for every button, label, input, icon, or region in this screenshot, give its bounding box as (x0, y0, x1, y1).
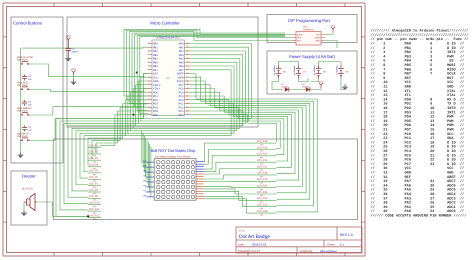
svg-text:14: 14 (148, 91, 150, 94)
svg-text:// 30 VCC: // 30 VCC VCC // (371, 166, 465, 171)
svg-text:PD1: PD1 (153, 95, 158, 98)
wire display left pin 3 to bus (144, 135, 146, 172)
svg-text:21: 21 (186, 113, 188, 116)
wire bus row 12 drop to node 100_P1 (99, 144, 101, 147)
svg-text:VCC: VCC (330, 24, 335, 27)
svg-text:// 4 PB3 3: // 4 PB3 3 PWM // (371, 54, 465, 59)
display left pin 8 (143, 194, 154, 197)
svg-text:// 18 PD4 12: // 18 PD4 12 PWM // (371, 115, 465, 120)
svg-text:AA Battery: AA Battery (336, 64, 339, 75)
display left pin 5 (143, 180, 154, 183)
diode D1 1N4001 (281, 83, 289, 92)
switch SW4 OM_Push (17, 81, 30, 90)
svg-text:100_P18: 100_P18 (257, 172, 268, 175)
power flag VCC power out (318, 80, 323, 88)
wire battery series 2 (272, 78, 283, 90)
node 100_P22 (257, 197, 277, 203)
wire bus row 1 drop to node 100_P12 (56, 119, 88, 217)
svg-text:// 29 PC7 23: // 29 PC7 23 D IO // (371, 162, 465, 167)
svg-text:// 9 RST: // 9 RST RST // (371, 76, 465, 81)
node 100_P12 (88, 214, 101, 220)
wire ISP signal 1 to MCU (124, 29, 292, 96)
display left pin 4 (143, 175, 154, 178)
section box: Power Supply (267, 51, 357, 94)
wire aux signal 2 over chip (135, 34, 285, 107)
svg-text:GND: GND (178, 76, 184, 79)
node 100_P11 (88, 208, 101, 214)
display right pin 14 (196, 193, 204, 195)
wire display right pin 15 to node 100_P23 (204, 196, 258, 206)
section box: ISP Programming Port (267, 15, 357, 43)
svg-text:31: 31 (186, 76, 188, 79)
wire MCU left pin 20 to bus row 12 (115, 115, 148, 146)
svg-text:1: 1 (148, 42, 149, 45)
svg-text:// pin num -- pin name -- Ardu: // pin num -- pin name -- Ardu pin -- Fu… (371, 37, 469, 42)
wire MCU right pin 10 to node 100_P23 (189, 77, 314, 205)
wire diode link (289, 89, 306, 91)
wire bus row 3 drop to node 100_P10 (64, 123, 88, 203)
wire MCU left pin 17 to bus row 9 (123, 104, 148, 139)
display left pin 6 (143, 184, 154, 187)
display right pin 13 (196, 190, 204, 192)
wire MCU left pin 11 to bus row 3 (138, 81, 147, 123)
svg-text:VCC: VCC (318, 80, 323, 83)
comment text: Atmega to Arduino pinout table (371, 29, 469, 219)
wire bus row 8 drop to node 100_P5 (84, 136, 88, 172)
svg-text:PC6: PC6 (179, 88, 184, 91)
battery G4 AA (313, 64, 327, 78)
node 100_P20 (257, 184, 277, 190)
svg-text:100_P22: 100_P22 (257, 197, 268, 200)
node 100_P6 (88, 176, 101, 182)
svg-text:100_P16: 100_P16 (257, 159, 268, 162)
wire button SW4 to MCU (30, 89, 148, 92)
wire display right pin 16 to node 100_P24 (204, 199, 258, 213)
wire bus row 4 to MCU right pin 4 (68, 55, 243, 126)
svg-text:PD5: PD5 (153, 110, 158, 113)
svg-text:25: 25 (186, 98, 188, 101)
wire display right pin 13 to node 100_P22 (204, 191, 258, 200)
wire ISP vcc (325, 32, 333, 35)
wire MCU right pin 16 to node 100_P17 (189, 100, 291, 168)
svg-text:2018-12-01: 2018-12-01 (252, 242, 267, 246)
wire bus row 9 (88, 137, 123, 139)
ground beeper (21, 210, 27, 216)
wire MCU right pin 20 to node 100_P13 (189, 115, 277, 142)
svg-text:12: 12 (148, 83, 150, 86)
wire button common to MCU pin 2 (22, 46, 148, 49)
svg-text:PC5: PC5 (179, 91, 184, 94)
wire battery series 4 (319, 62, 342, 66)
svg-text:Drawn By:: Drawn By: (300, 249, 313, 253)
diode D2 1N4001 (302, 83, 310, 92)
node 100_P8 (88, 189, 101, 195)
svg-text:32: 32 (186, 72, 188, 75)
svg-text:PB1: PB1 (153, 46, 158, 49)
frame ticks (3, 3, 365, 256)
wire button SW2 to MCU (30, 115, 148, 141)
node 100_P14 (257, 146, 277, 152)
svg-text:PA0: PA0 (179, 43, 184, 46)
svg-text:ISP Programming Port: ISP Programming Port (288, 18, 331, 23)
svg-text:28: 28 (186, 87, 188, 90)
svg-text:// 39 PA1 25: // 39 PA1 25 ADC1 // (371, 205, 465, 210)
svg-text:PD0: PD0 (153, 91, 158, 94)
display right pin 10 (196, 183, 204, 185)
svg-text:// 11 GND: // 11 GND GND // (371, 85, 465, 90)
node 100_P7 (88, 183, 101, 189)
svg-text:// 34 PA6 30: // 34 PA6 30 ADC6 // (371, 183, 465, 188)
svg-text:fake engineer: fake engineer (320, 249, 337, 253)
power flag VCC decoupling (66, 35, 71, 43)
svg-text:XTAL2: XTAL2 (153, 84, 161, 87)
svg-text:// 37 PA3 27: // 37 PA3 27 ADC3 // (371, 196, 465, 201)
sheet frame outer (3, 3, 365, 256)
svg-text:Sheet:: Sheet: (327, 242, 335, 246)
wire bus row 11 drop to node 100_P2 (95, 143, 97, 153)
svg-text:35: 35 (186, 61, 188, 64)
svg-text:VCC: VCC (66, 35, 71, 38)
svg-text:// 7 PB6 6: // 7 PB6 6 MISO // (371, 67, 465, 72)
svg-text:7: 7 (148, 64, 149, 67)
svg-text:40: 40 (186, 42, 188, 45)
svg-text:30: 30 (186, 79, 188, 82)
svg-text:Beeper: Beeper (22, 174, 36, 179)
svg-text:9: 9 (148, 72, 149, 75)
wire aux signal 3 over chip (137, 35, 285, 110)
svg-text:Control Buttons: Control Buttons (13, 21, 42, 26)
wire display right pin 8 to node 100_P18 (204, 175, 258, 179)
wire battery out (341, 78, 345, 90)
svg-text:// 14 PD0 8: // 14 PD0 8 RX D // (371, 97, 465, 102)
wire bus row 7 drop to node 100_P6 (80, 133, 88, 178)
svg-text:23: 23 (186, 106, 188, 109)
svg-text:// 8 PB7 7: // 8 PB7 7 SCLK // (371, 72, 465, 77)
svg-text:PD6: PD6 (153, 114, 158, 117)
svg-text:1/1: 1/1 (340, 242, 344, 246)
svg-text:RST: RST (153, 73, 158, 76)
wire diode to vcc (310, 88, 321, 90)
svg-text:8: 8 (148, 68, 149, 71)
svg-text:100nF: 100nF (72, 51, 79, 54)
svg-text:// 24 PC2 18: // 24 PC2 18 D IO // (371, 140, 465, 145)
section box: Control Buttons (11, 17, 63, 163)
svg-text:37: 37 (186, 53, 188, 56)
svg-text:// 38 PA2 26: // 38 PA2 26 ADC2 // (371, 201, 465, 206)
svg-text:PA7: PA7 (179, 69, 184, 72)
display left pin 7 (143, 189, 154, 192)
wire MCU right pin 11 to node 100_P22 (189, 81, 310, 199)
svg-text:MISO: MISO (315, 36, 321, 39)
power flag VCC aux (71, 68, 76, 76)
node 100_P13 (257, 140, 277, 146)
svg-text://////////////////////////////: ////////////////////////////////////////… (371, 33, 469, 38)
svg-text:100_P3: 100_P3 (89, 157, 99, 160)
display module DM1 8x8 RGY dot matrix (151, 148, 196, 200)
svg-text:100_P19: 100_P19 (257, 178, 268, 181)
svg-text:// 13 XTL: // 13 XTL XTAL // (371, 93, 465, 98)
svg-text:// 31 GND: // 31 GND GND // (371, 171, 465, 176)
display right pin 3 (196, 166, 204, 168)
svg-text:BUZZER1: BUZZER1 (22, 188, 34, 191)
capacitor C4 1uF (22, 75, 32, 81)
svg-text:// 21 PD7 15: // 21 PD7 15 PWM // (371, 128, 465, 133)
svg-text:// 32 REF: // 32 REF AREF // (371, 175, 465, 180)
svg-text:27: 27 (186, 91, 188, 94)
wire button SW3 to MCU (30, 104, 148, 116)
wire ISP gnd (325, 41, 337, 49)
wire bus row 1 to MCU right pin 1 (56, 44, 251, 119)
node 100_P2 (88, 151, 101, 157)
svg-text:100_P1: 100_P1 (89, 144, 99, 147)
wire beeper to node 100_P12 (35, 202, 88, 216)
wire MCU right pin 15 to node 100_P18 (189, 96, 295, 174)
wire display left pin 4 to bus (145, 138, 148, 177)
svg-text:100_P6: 100_P6 (89, 176, 99, 179)
wire display left pin 8 to bus (147, 146, 151, 196)
svg-text:Dot Art Badge: Dot Art Badge (239, 234, 270, 240)
wire MCU right pin 17 to node 100_P16 (189, 104, 288, 162)
svg-text:34: 34 (186, 64, 188, 67)
svg-text:100_P11: 100_P11 (89, 208, 100, 211)
svg-text:22: 22 (186, 109, 188, 112)
node 100_P23 (257, 204, 277, 210)
svg-text:VCC: VCC (153, 76, 158, 79)
svg-text:// 5 PB4 4: // 5 PB4 4 SS // (371, 59, 465, 64)
svg-text:29: 29 (186, 83, 188, 86)
svg-text:PA5: PA5 (179, 61, 184, 64)
svg-text:18: 18 (148, 106, 150, 109)
svg-text:PB4: PB4 (153, 58, 158, 61)
svg-text:PC3: PC3 (179, 99, 184, 102)
title block (236, 227, 362, 253)
display right pin 7 (196, 176, 204, 178)
svg-text:PC1: PC1 (179, 106, 184, 109)
junction dot MCU left (133, 114, 135, 116)
wire MCU left pin 15 to bus row 7 (128, 96, 148, 133)
wire MCU right pin 9 to node 100_P24 (189, 74, 317, 212)
svg-text:PA3: PA3 (179, 54, 184, 57)
display left pin 1 (143, 160, 154, 163)
wire display left pin 5 to bus (146, 140, 149, 182)
svg-text:PA1: PA1 (179, 46, 184, 49)
wire battery series (279, 62, 299, 66)
svg-text:GND: GND (153, 80, 159, 83)
svg-text:PD4: PD4 (153, 106, 158, 109)
svg-text:100_P21: 100_P21 (257, 191, 268, 194)
svg-text:// 10 VCC: // 10 VCC VCC // (371, 80, 465, 85)
wire MCU right pin 18 to node 100_P15 (189, 107, 284, 155)
wire MCU left pin 16 to bus row 8 (125, 100, 147, 136)
svg-text:// 19 PD5 13: // 19 PD5 13 PWM // (371, 119, 465, 124)
svg-text:// 28 PC6 22: // 28 PC6 22 D IO // (371, 158, 465, 163)
svg-text:100_P20: 100_P20 (257, 184, 268, 187)
wire bus row 12 (100, 144, 115, 146)
svg-text:XTAL1: XTAL1 (153, 88, 161, 91)
svg-text:ATMEGA16A-PU: ATMEGA16A-PU (157, 36, 180, 40)
wire display left pin 6 to bus (147, 142, 149, 187)
capacitor C2 1uF (22, 126, 32, 132)
display right pin 8 (196, 178, 204, 180)
svg-text:REV 1.0: REV 1.0 (340, 233, 353, 237)
wire ISP signal 2 to MCU (127, 31, 292, 100)
svg-text:AA Battery: AA Battery (273, 64, 276, 75)
svg-text:PD7: PD7 (179, 114, 184, 117)
sheet frame inner (7, 7, 362, 253)
capacitor C5 100nF (66, 43, 79, 56)
display right pin 1 (196, 161, 204, 163)
section box: display area (53, 139, 357, 220)
display right pin 15 (196, 195, 204, 197)
wire bus row 5 to MCU right pin 5 (72, 59, 240, 129)
svg-text:100_P23: 100_P23 (257, 204, 268, 207)
svg-text:// 36 PA4 28: // 36 PA4 28 ADC4 // (371, 192, 465, 197)
wire display right pin 2 to node 100_P14 (204, 150, 258, 165)
svg-text:// 26 PC4 20: // 26 PC4 20 D IO // (371, 149, 465, 154)
svg-text:19: 19 (148, 109, 150, 112)
junction dot MCU mid (136, 72, 138, 74)
svg-text:100_P12: 100_P12 (89, 214, 100, 217)
wire vcc aux (73, 76, 75, 80)
wire bus row 4 drop to node 100_P9 (68, 126, 88, 197)
wire battery series 5 (311, 78, 319, 82)
svg-text:24: 24 (186, 102, 188, 105)
svg-text:// 40 PA0 24: // 40 PA0 24 ADC0 // (371, 209, 465, 214)
svg-text:GND: GND (315, 39, 320, 42)
wire display left pin 2 to bus (143, 133, 146, 167)
svg-text:39: 39 (186, 46, 188, 49)
node 100_P5 (88, 170, 101, 176)
svg-text:100_P4: 100_P4 (89, 163, 99, 166)
wire bus row 8 to MCU right pin 8 (84, 70, 231, 136)
wire display left pin 7 to bus (147, 144, 150, 192)
switch SW3 OM_Push (17, 107, 32, 116)
display right pin 12 (196, 188, 204, 190)
display right pin 9 (196, 180, 204, 182)
display right pin 16 (196, 198, 204, 200)
svg-text:PB6: PB6 (153, 65, 158, 68)
svg-text:100_P7: 100_P7 (89, 183, 99, 186)
svg-text:26: 26 (186, 94, 188, 97)
svg-text:100_P9: 100_P9 (89, 195, 99, 198)
svg-text:6: 6 (148, 61, 149, 64)
svg-text:// 25 PC3 19: // 25 PC3 19 D IO // (371, 145, 465, 150)
svg-text:16: 16 (148, 98, 150, 101)
svg-text:// 35 PA5 29: // 35 PA5 29 ADC5 // (371, 188, 465, 193)
node 100_P10 (88, 202, 101, 208)
svg-text:AVRISP-6: AVRISP-6 (303, 29, 314, 32)
svg-text:PA2: PA2 (179, 50, 184, 53)
svg-text:33: 33 (186, 68, 188, 71)
display right pin 6 (196, 173, 204, 175)
svg-text:AVCC: AVCC (177, 80, 184, 83)
node 100_P9 (88, 195, 101, 201)
wire MCU left pin 18 to bus row 10 (120, 107, 147, 140)
svg-text:PD2: PD2 (153, 99, 158, 102)
wire display right pin 12 to node 100_P21 (204, 189, 258, 194)
svg-text:10: 10 (148, 76, 150, 79)
svg-text:36: 36 (186, 57, 188, 60)
wire beeper gnd (23, 202, 25, 210)
wire MCU left pin 14 to bus row 6 (131, 92, 148, 131)
node 100_P1 (88, 144, 101, 150)
section box: Beeper (11, 171, 47, 225)
wire MCU left pin 13 to bus row 5 (133, 89, 147, 129)
svg-text:PB2: PB2 (153, 50, 158, 53)
display right pin 4 (196, 168, 204, 170)
display left pin 3 (143, 170, 154, 173)
wire display left pin 1 to bus (142, 131, 147, 162)
switch SW5 OM_Push (17, 56, 34, 65)
wire bus row 9 drop to node 100_P4 (87, 138, 89, 165)
svg-text:PC0: PC0 (179, 110, 184, 113)
svg-text:8x8 RGY Dot Matrix Disp: 8x8 RGY Dot Matrix Disp (151, 148, 196, 153)
svg-text:20: 20 (148, 113, 150, 116)
wire display right pin 11 to node 100_P20 (204, 186, 258, 187)
wire bus row 6 drop to node 100_P7 (76, 131, 88, 185)
wire display right pin 4 to node 100_P15 (204, 156, 258, 169)
wire MCU right pin 12 to node 100_P21 (189, 85, 306, 193)
svg-text:100_P15: 100_P15 (257, 153, 268, 156)
svg-text:// 12 XTL: // 12 XTL XTAL // (371, 89, 465, 94)
node 100_P24 (257, 210, 277, 216)
wire display right pin 1 to node 100_P13 (204, 143, 258, 162)
svg-text:PB3: PB3 (153, 54, 158, 57)
svg-text:// 6 PB5 5: // 6 PB5 5 MOSI // (371, 63, 465, 68)
svg-text:// 23 PC1 17: // 23 PC1 17 SDA // (371, 136, 465, 141)
ground aux (71, 79, 77, 85)
svg-text:// 15 PD1 9: // 15 PD1 9 TX D // (371, 102, 465, 107)
svg-text:AA Battery: AA Battery (293, 64, 296, 75)
wire display right pin 6 to node 100_P17 (204, 169, 258, 175)
svg-text:// 3 PB2 2: // 3 PB2 2 INT2 // (371, 50, 465, 55)
node 100_P16 (257, 159, 277, 165)
svg-text:SCK: SCK (297, 36, 302, 39)
svg-text:100_P8: 100_P8 (89, 189, 99, 192)
connector SV1 AVRISP-6 (292, 26, 325, 46)
svg-text:13: 13 (148, 87, 150, 90)
svg-text:100_P10: 100_P10 (89, 202, 100, 205)
svg-text:5: 5 (148, 57, 149, 60)
wire aux signal 1 over chip (132, 33, 285, 104)
wire bus row 10 drop to node 100_P3 (91, 141, 93, 160)
svg-text:EasyEDA v5.9.22: EasyEDA v5.9.22 (238, 249, 260, 253)
junction dot beeper net (87, 215, 89, 217)
display right pin 2 (196, 163, 204, 165)
wire MCU left pin 19 to bus row 11 (118, 111, 148, 143)
wire battery series 3 (299, 78, 309, 82)
svg-text:PC2: PC2 (179, 103, 184, 106)
node 100_P17 (257, 165, 277, 171)
svg-text:15: 15 (148, 94, 150, 97)
svg-text:MOSI: MOSI (297, 33, 303, 36)
svg-text:3: 3 (148, 49, 149, 52)
display right pin 11 (196, 185, 204, 187)
node 100_P19 (257, 178, 277, 184)
svg-text:4: 4 (148, 53, 149, 56)
svg-text:PC4: PC4 (179, 95, 184, 98)
svg-text:// 33 PA7 31: // 33 PA7 31 ADC7 // (371, 179, 465, 184)
svg-text:PB0: PB0 (153, 43, 158, 46)
wire bus row 2 drop to node 100_P11 (60, 121, 88, 210)
svg-text:AA Battery: AA Battery (313, 64, 316, 75)
wire display right pin 9 to node 100_P19 (204, 180, 258, 182)
switch SW2 OM_Push (17, 132, 30, 141)
svg-text:////// CODE ACCEPTS ARDUINO PI: ////// CODE ACCEPTS ARDUINO PIN NUMBER /… (371, 214, 467, 219)
wire aux signal 4 over chip (140, 37, 285, 114)
svg-text:///////// Atmega328 to Arduino: ///////// Atmega328 to Arduino Pinout///… (371, 29, 469, 34)
svg-text:VCC: VCC (71, 68, 76, 71)
